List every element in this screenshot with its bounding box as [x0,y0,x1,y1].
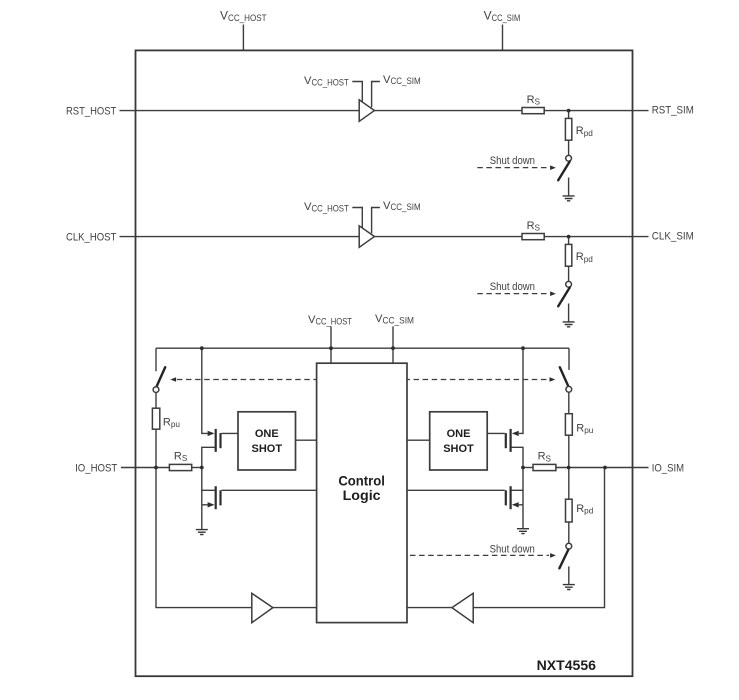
wire RST_HOST input [120,110,361,112]
svg-text:VCC_HOST: VCC_HOST [304,75,349,87]
ground Q4 [517,529,529,534]
svg-text:Control: Control [338,473,385,488]
node IO_SIM-loopback junction [603,466,607,470]
ground S5 [563,585,575,590]
svg-text:Shut down: Shut down [490,543,535,555]
svg-text:VCC_HOST: VCC_HOST [304,201,349,213]
resistor RS IO sim side [533,464,556,470]
ground Q2 [196,530,208,535]
wire RST buffer output to RST_SIM [374,110,648,112]
wire CLK node to Rpd [568,237,570,245]
svg-text:VCC_SIM: VCC_SIM [383,74,421,86]
svg-text:VCC_SIM: VCC_SIM [383,200,421,212]
switch S3 IO left shutdown [153,367,165,392]
wire rail to Q1 drain [202,348,208,433]
resistor RS RST row [522,108,544,114]
wire Q4 source to ground [519,490,523,528]
svg-text:ONE: ONE [255,428,279,440]
wire control logic to Q4 gate [407,489,505,491]
node RST_SIM junction [567,109,571,113]
node rail-Q1 junction [200,346,204,350]
wire CLK buffer output to CLK_SIM [374,236,648,238]
chip outline NXT4556 [136,50,633,676]
transistor Q1 upper left [208,429,221,452]
resistor Rpd RST row [565,118,571,140]
wire rail to left switch S3 fixed contact [155,348,157,371]
svg-text:IO_HOST: IO_HOST [75,462,117,474]
wire VCC_SIM tick to buffer U1 [372,82,380,108]
wire VCC_SIM supply drop [502,25,504,51]
ground CLK [563,322,575,327]
wire IO_HOST node to Q2 [202,468,215,491]
wire RST node to Rpd [568,111,570,119]
svg-text:ONE: ONE [447,428,471,440]
wire ONE SHOT right to Q3 gate [487,432,505,434]
wire VCC_HOST drop to control logic [330,326,332,363]
wire VCC_SIM tick to buffer U2 [372,208,380,234]
op-amp ONE SHOT left block [238,412,296,470]
svg-text:Shut down: Shut down [490,281,535,293]
svg-text:CLK_HOST: CLK_HOST [66,231,117,243]
resistor Rpu left [152,408,159,429]
wire VCC_HOST tick to buffer U1 [352,82,362,103]
node IO_HOST-Q1Q2 junction [200,466,204,470]
svg-text:IO_SIM: IO_SIM [652,462,684,474]
wire control logic to right buffer tip [407,607,452,609]
wire shutdown dashed control to S5 [410,554,549,556]
wire Rpd to shutdown switch S2 [568,266,570,281]
buffer U1 RST [359,100,374,122]
svg-text:SHOT: SHOT [443,443,474,455]
wire ONE SHOT left to control logic [296,439,317,441]
resistor Rpd right [566,499,573,522]
node IO_SIM-RpuRpd junction [567,466,571,470]
wire IO_HOST input [121,467,169,469]
node IO_HOST-Rpu junction [154,466,158,470]
switch S2 CLK shutdown [558,281,571,306]
wire VCC_HOST tick to buffer U2 [352,208,362,229]
wire left buffer output to control logic [273,607,317,609]
node rail-VCC_SIM junction [391,346,395,350]
transistor Q3 upper right [506,429,519,452]
transistor Q2 lower left [208,486,221,509]
wire Q1 gate to ONE SHOT [222,432,239,434]
node rail-Q3 junction [521,346,525,350]
wire left switch S3 to Rpu [155,393,157,409]
buffer U3 IO host-to-sim [252,593,273,622]
resistor Rpd CLK row [565,244,571,266]
resistor Rpu right [565,414,572,436]
ground RST [563,196,575,201]
wire VCC_HOST supply drop [242,25,244,51]
wire Q3 source to IO_SIM node [512,447,524,467]
wire IO supply rail [156,347,569,349]
op-amp Control Logic block [317,363,407,622]
wire right buffer to IO_SIM riser [473,468,604,608]
switch S5 IO sim shutdown [559,543,571,568]
wire switch S1 to ground [568,178,570,196]
wire right RS to IO_SIM output [556,467,649,469]
wire right Rpu to IO node and Rpd [568,435,570,499]
resistor RS IO host side [169,464,191,470]
svg-text:SHOT: SHOT [252,443,283,455]
wire left Rpu down through IO_HOST node to bottom loop [156,429,252,607]
buffer U2 CLK [359,226,374,248]
wire shutdown dashed control to S3 and S4 [177,379,549,381]
wire shutdown dashed control to S1 [477,167,549,169]
wire rail to Q3 drain [519,348,523,433]
wire Q2 source to ground [202,490,208,529]
wire right switch S4 to Rpu [568,393,570,414]
buffer U4 IO sim-to-host [452,593,473,622]
resistor RS CLK row [522,234,544,240]
wire RS left to MOSFET node [192,467,202,469]
node CLK_SIM junction [567,235,571,239]
wire Q2 gate to control logic [222,489,317,491]
wire switch S2 to ground [568,304,570,322]
svg-text:VCC_SIM: VCC_SIM [375,313,414,325]
switch S4 IO right shutdown [560,367,572,392]
wire switch S5 to ground [568,566,570,584]
svg-text:RST_HOST: RST_HOST [66,105,117,117]
node rail-VCC_HOST junction [329,346,333,350]
wire control logic to ONE SHOT right [407,439,430,441]
node IO_SIM-Q3Q4 junction [521,466,525,470]
svg-text:CLK_SIM: CLK_SIM [652,231,694,243]
op-amp ONE SHOT right block [430,412,488,470]
wire right Rpd to shutdown switch S5 [568,522,570,543]
wire shutdown dashed control to S2 [477,293,549,295]
svg-text:Shut down: Shut down [490,155,535,167]
svg-text:Logic: Logic [343,488,382,503]
svg-text:VCC_HOST: VCC_HOST [308,314,352,326]
wire IO_SIM node to Q4 [512,468,524,491]
wire CLK_HOST input [120,236,361,238]
transistor Q4 lower right [506,486,519,509]
wire Q1 source to IO_HOST node [202,447,215,467]
svg-text:RST_SIM: RST_SIM [652,105,694,117]
switch S1 RST shutdown [558,155,571,180]
wire rail to right switch S4 fixed contact [568,348,570,370]
svg-text:NXT4556: NXT4556 [537,657,597,673]
wire Rpd to shutdown switch S1 [568,140,570,155]
wire VCC_SIM drop to control logic [392,326,394,363]
wire IO node to right RS [523,467,533,469]
